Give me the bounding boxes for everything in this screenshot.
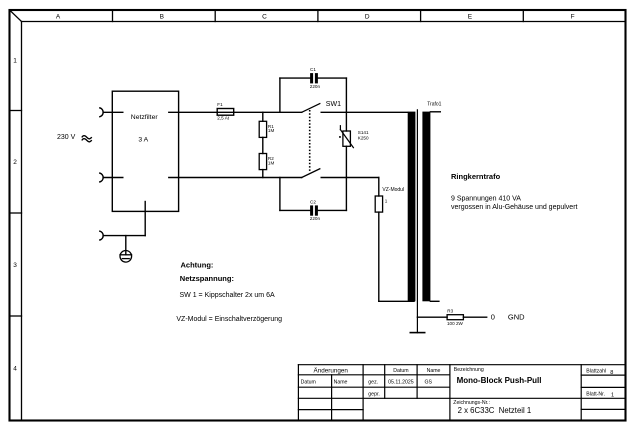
svg-text:1: 1 (385, 199, 388, 204)
svg-text:Name: Name (334, 380, 348, 386)
svg-text:VZ-Modul = Einschaltverzögerun: VZ-Modul = Einschaltverzögerung (176, 316, 282, 323)
svg-text:C: C (262, 13, 267, 20)
svg-text:S141: S141 (358, 130, 369, 135)
svg-text:gez.: gez. (368, 380, 378, 386)
svg-text:Blatt-Nr.: Blatt-Nr. (586, 391, 605, 397)
svg-text:vergossen in Alu-Gehäuse und g: vergossen in Alu-Gehäuse und gepulvert (451, 204, 578, 211)
svg-text:F: F (571, 13, 575, 20)
svg-text:Bezeichnung: Bezeichnung (454, 367, 484, 373)
svg-text:2: 2 (13, 159, 17, 166)
svg-text:C2: C2 (310, 200, 316, 205)
svg-text:Änderungen: Änderungen (314, 366, 349, 374)
svg-text:Netzspannung:: Netzspannung: (180, 274, 234, 283)
svg-text:1M: 1M (268, 160, 275, 165)
svg-text:SW1: SW1 (326, 101, 341, 108)
svg-text:F1: F1 (217, 102, 223, 107)
svg-text:Name: Name (427, 368, 441, 374)
svg-text:0: 0 (491, 313, 495, 322)
svg-text:220n: 220n (310, 84, 321, 89)
svg-text:gepr.: gepr. (368, 392, 380, 398)
svg-text:A: A (56, 13, 61, 20)
svg-text:1M: 1M (268, 128, 275, 133)
svg-text:2,5 At: 2,5 At (217, 116, 229, 121)
svg-text:Mono-Block Push-Pull: Mono-Block Push-Pull (457, 376, 542, 385)
svg-text:9 Spannungen 410 VA: 9 Spannungen 410 VA (451, 195, 521, 202)
svg-text:1: 1 (611, 393, 614, 399)
svg-text:E: E (468, 13, 473, 20)
svg-text:Blattzahl: Blattzahl (586, 369, 606, 375)
svg-text:GS: GS (424, 380, 432, 386)
svg-text:Trafo1: Trafo1 (427, 101, 441, 107)
svg-text:220n: 220n (310, 216, 321, 221)
svg-text:100 2W: 100 2W (447, 321, 463, 326)
svg-text:3 A: 3 A (138, 137, 148, 144)
svg-text:GND: GND (508, 313, 525, 322)
svg-text:R3: R3 (447, 308, 453, 313)
svg-text:Ringkerntrafo: Ringkerntrafo (451, 172, 501, 181)
svg-text:1: 1 (13, 58, 17, 65)
svg-text:Datum: Datum (301, 380, 316, 386)
svg-text:D: D (365, 13, 370, 20)
svg-text:2 x 6C33C Netzteil 1: 2 x 6C33C Netzteil 1 (458, 406, 532, 415)
svg-text:8: 8 (610, 370, 613, 376)
svg-text:SW 1 = Kippschalter 2x um 6A: SW 1 = Kippschalter 2x um 6A (180, 292, 275, 299)
svg-text:VZ-Modul: VZ-Modul (382, 187, 404, 193)
svg-text:C1: C1 (310, 67, 316, 72)
svg-text:3: 3 (13, 262, 17, 269)
svg-text:Netzfilter: Netzfilter (131, 114, 159, 121)
svg-text:K250: K250 (358, 136, 369, 141)
svg-text:B: B (160, 13, 164, 20)
svg-text:Achtung:: Achtung: (181, 260, 214, 269)
svg-text:Datum: Datum (393, 368, 408, 374)
svg-text:05.11.2025: 05.11.2025 (388, 380, 414, 386)
svg-text:230 V: 230 V (57, 134, 76, 141)
svg-text:4: 4 (13, 366, 17, 373)
